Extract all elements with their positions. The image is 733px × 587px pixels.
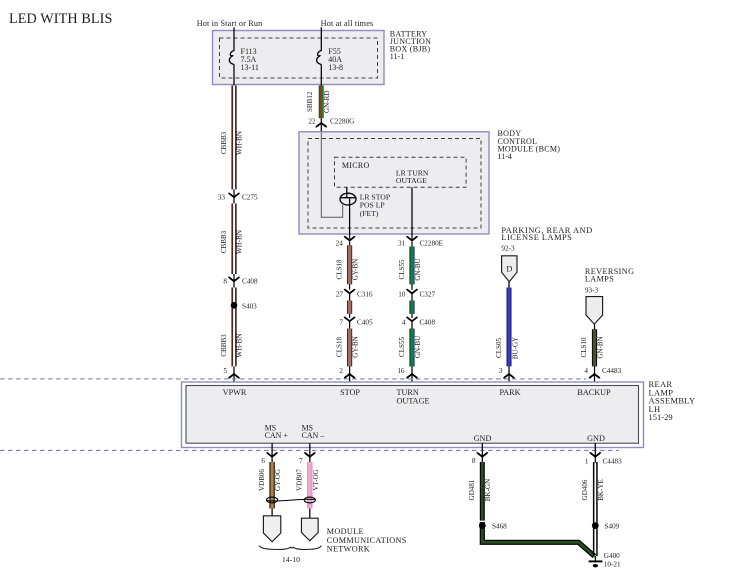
svg-text:CLS05: CLS05 [495,338,503,358]
pin label BACKUP [577,388,611,397]
pin 2 STOP entry [339,367,354,378]
svg-text:2: 2 [339,367,343,375]
svg-text:11-1: 11-1 [390,52,404,61]
svg-text:LAMPS: LAMPS [585,275,614,284]
svg-text:GND: GND [587,434,605,443]
net label Hot at all times [321,19,374,28]
svg-text:VDB07: VDB07 [296,469,304,491]
pin label GND (pin 8) [474,434,492,443]
wire CBBB3 WH-BN segment S403 to pin 5 VPWR [220,288,244,383]
wire pentagon to bar [594,324,596,330]
svg-text:VT-OG: VT-OG [312,469,320,490]
svg-text:10-21: 10-21 [604,560,621,568]
svg-text:MICRO: MICRO [342,161,370,170]
svg-text:GN-BU: GN-BU [414,258,422,280]
wire CLS18 GY-BN pin24 to C316 [336,242,360,290]
svg-text:24: 24 [336,239,344,247]
rear lamp assembly LH outer box [182,382,644,448]
splice S403 [231,302,257,310]
svg-text:CLS18: CLS18 [336,337,344,357]
svg-text:S468: S468 [492,523,507,531]
svg-text:VPWR: VPWR [223,388,247,397]
wire to network connector 7 [309,509,311,520]
svg-text:(FET): (FET) [360,209,379,218]
svg-text:GD406: GD406 [581,479,589,500]
svg-text:BK-YE: BK-YE [597,479,605,501]
svg-text:GN-RD: GN-RD [323,91,331,113]
svg-text:CBBB3: CBBB3 [220,230,228,253]
svg-text:BU-GY: BU-GY [511,337,519,359]
pin 7 connector [299,452,315,465]
svg-text:92-3: 92-3 [501,245,515,253]
svg-text:GY-OG: GY-OG [274,469,282,491]
label BATTERY JUNCTION BOX (BJB) 11-1 [390,29,431,61]
wire from Hot in Start or Run to fuse F113 [233,27,235,51]
svg-text:31: 31 [398,239,406,247]
wire C2280G into BCM [320,123,322,133]
MICRO dashed box [335,157,467,187]
page ref 93-3 [585,287,599,295]
wire fuse F55 to BJB bottom [320,65,322,86]
BCM pin 24 [336,236,355,247]
wire to network connector 6 [271,509,273,517]
svg-text:C316: C316 [357,290,373,298]
wire CBBB3 WH-BN segment BJB to C275 [220,85,244,194]
pin label TURN OUTAGE [397,388,430,405]
svg-text:13-8: 13-8 [328,63,343,72]
pin label GND (pin 1) [587,434,605,443]
svg-text:CLS18: CLS18 [336,259,344,279]
svg-text:C4483: C4483 [602,367,622,375]
svg-text:3: 3 [499,367,503,375]
battery junction box BJB inner dashed [220,38,378,78]
svg-text:1: 1 [585,457,589,465]
svg-text:G400: G400 [604,552,620,560]
battery junction box BJB outer [213,31,385,85]
svg-text:S403: S403 [242,302,257,310]
svg-text:SBB12: SBB12 [306,91,314,112]
pin label MS CAN + [265,424,289,441]
pin 3 PARK entry [499,367,514,378]
label MODULE COMMUNICATIONS NETWORK [327,527,407,553]
pin label PARK [499,388,520,397]
svg-text:GD481: GD481 [468,479,476,500]
svg-text:WH-BN: WH-BN [236,230,244,254]
svg-text:GN-BU: GN-BU [414,336,422,358]
wire CLS55 GN-BU pin31 to C327 [398,242,422,290]
svg-text:C2280G: C2280G [330,118,354,126]
wire VDB06 GY-OG [258,462,282,509]
ground G400 [589,552,621,568]
page ref 14-10 [282,555,300,564]
svg-text:BACKUP: BACKUP [577,388,611,397]
title LED WITH BLIS [9,11,113,27]
svg-text:27: 27 [336,290,344,298]
wire LR TURN OUTAGE to pin 31 [411,187,413,239]
net label Hot in Start or Run [197,19,263,28]
connector C405 pin 7 [339,317,373,327]
svg-text:4: 4 [402,319,406,327]
svg-text:GY-BN: GY-BN [352,259,360,281]
svg-text:151-29: 151-29 [649,412,673,422]
internal wire pin22 elbow to FET [321,133,342,218]
svg-text:10: 10 [398,290,406,298]
svg-text:Hot at all times: Hot at all times [321,19,374,28]
BCM pin 31 connector C2280E [398,236,444,247]
svg-text:OUTAGE: OUTAGE [397,396,430,405]
connector pentagon (reversing lamps) [586,297,603,325]
label BODY CONTROL MODULE (BCM) 11-4 [498,129,561,161]
svg-text:BK-GN: BK-GN [484,479,492,501]
svg-text:CLS55: CLS55 [398,259,406,279]
svg-text:GND: GND [474,434,492,443]
pin 5 VPWR entry [223,367,239,378]
svg-text:33: 33 [218,193,226,201]
brace under network connectors [259,546,321,550]
pin 6 connector [261,452,277,465]
connector C408 pin 4 [402,317,436,327]
pin 8 connector [472,452,487,465]
svg-text:NETWORK: NETWORK [327,544,370,553]
wire pin 6 MS CAN+ exit [271,443,273,462]
FET gate wire from MICRO [346,187,348,198]
wire GY-BN C316 to C405 [347,293,352,318]
svg-text:7: 7 [339,319,343,327]
svg-text:C405: C405 [357,319,373,327]
svg-text:CAN +: CAN + [265,431,289,440]
wire pin 7 MS CAN- exit [309,443,311,462]
connector C316 pin 27 [336,289,373,298]
svg-text:CBBB3: CBBB3 [220,131,228,154]
svg-text:C327: C327 [420,290,436,298]
pin label MS CAN - [302,424,325,441]
svg-text:S409: S409 [605,523,620,531]
svg-text:WH-BN: WH-BN [236,334,244,358]
rear lamp assembly inner box [186,386,639,444]
svg-text:5: 5 [223,367,227,375]
pin 4 C4483 BACKUP entry [584,367,621,378]
wire VDB07 VT-OG [296,462,320,509]
svg-text:16: 16 [397,367,405,375]
connector C327 pin 10 [398,289,435,298]
wire GN-BU C327 to C408 [409,293,414,318]
wire SBB12 GN-RD BJB to C2280G [306,85,331,123]
connector D pentagon (parking lamps) [502,256,517,282]
svg-text:STOP: STOP [340,388,360,397]
wire GD406 BK-YE [581,462,605,556]
svg-text:CLS55: CLS55 [398,337,406,357]
fuse F55 40A [317,47,343,72]
svg-text:D: D [506,264,512,273]
wire from Hot at all times to fuse F55 [320,27,322,51]
op-amp/FET driver U LR STOP POS LP (FET) [340,193,390,218]
fuse F113 7.5A [229,47,259,72]
FET output wire to pin 24 [349,198,351,239]
svg-text:OUTAGE: OUTAGE [396,176,427,185]
svg-text:C4483: C4483 [603,457,623,465]
label REAR LAMP ASSEMBLY LH 151-29 [649,379,696,422]
pin label STOP [340,388,360,397]
svg-text:22: 22 [308,118,316,126]
wire CLS05 BU-GY to pin 3 PARK [495,288,519,382]
wire GD481 BK-GN [468,462,492,521]
connector C275 pin 33 [218,193,258,202]
label PARKING, REAR AND LICENSE LAMPS [501,226,592,242]
wire fuse F113 to BJB bottom [233,65,235,86]
wire pin 8 GND exit [481,443,483,462]
svg-text:C408: C408 [420,319,436,327]
svg-text:11-4: 11-4 [498,152,512,161]
svg-text:PARK: PARK [499,388,520,397]
wire CLS10 GN-BN to pin 4 BACKUP [580,329,604,382]
connector C408 pin 8 [223,277,258,286]
network pentagon connector (CAN-) [301,518,318,541]
svg-text:CAN –: CAN – [302,431,325,440]
svg-text:Hot in Start or Run: Hot in Start or Run [197,19,263,28]
wire segment C408 to splice S403 [233,278,235,305]
splice S409 [592,522,620,531]
connector C2280G pin 22 [308,118,354,128]
label REVERSING LAMPS [585,267,635,284]
wire pin 1 GND exit [594,443,596,462]
svg-text:GN-BN: GN-BN [596,336,604,358]
wire CLS55 GN-BU C408 to pin 16 TURN OUTAGE [398,321,422,382]
svg-text:WH-BN: WH-BN [236,131,244,155]
label LR TURN OUTAGE [396,168,429,185]
svg-text:93-3: 93-3 [585,287,599,295]
twisted pair symbol [267,497,316,503]
wire BK-GN from S468 to ground G400 [482,522,594,556]
page ref 92-3 [501,245,515,253]
svg-text:C408: C408 [242,277,258,285]
svg-text:C2280E: C2280E [420,239,444,247]
network pentagon connector (CAN+) [263,516,280,542]
svg-text:C275: C275 [242,193,258,201]
wire pentagon D to bar [508,282,510,289]
body control module BCM outer [299,132,489,234]
svg-text:GY-BN: GY-BN [352,336,360,358]
wire CBBB3 WH-BN segment C275 to C408 [220,194,244,278]
svg-text:6: 6 [261,457,265,465]
svg-text:4: 4 [584,367,588,375]
svg-text:CLS10: CLS10 [580,337,588,357]
svg-text:LED WITH BLIS: LED WITH BLIS [9,11,113,27]
svg-text:13-11: 13-11 [241,63,259,72]
splice S468 [479,522,507,531]
svg-text:14-10: 14-10 [282,555,300,564]
svg-text:VDB06: VDB06 [258,469,266,491]
wire CLS18 GY-BN C405 to pin 2 STOP [336,321,360,382]
BCM inner dashed [308,139,481,229]
harness dashed line below rear lamp assembly [0,449,619,451]
svg-text:LICENSE LAMPS: LICENSE LAMPS [501,233,572,242]
svg-text:CBBB3: CBBB3 [220,334,228,357]
harness dashed line above rear lamp assembly [0,378,586,380]
pin 1 C4483 connector [585,452,622,465]
pin label VPWR [223,388,247,397]
svg-text:7: 7 [299,457,303,465]
pin 16 TURN OUTAGE entry [397,367,417,378]
svg-text:8: 8 [472,457,476,465]
label MICRO [342,161,370,170]
svg-text:8: 8 [223,277,227,285]
